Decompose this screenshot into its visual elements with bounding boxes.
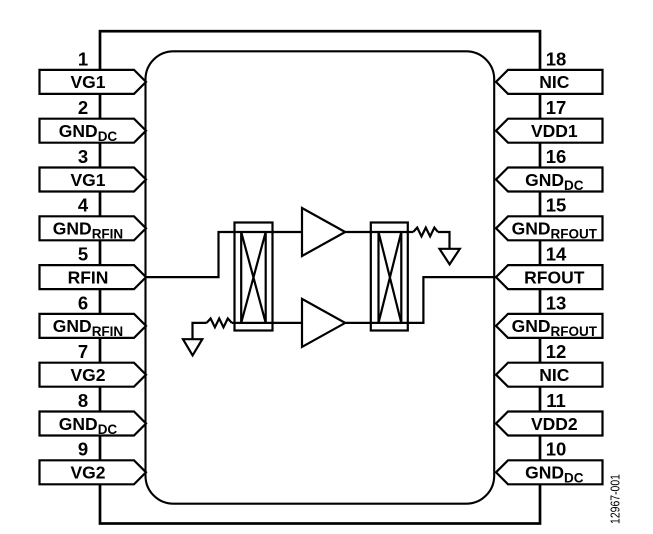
svg-text:13: 13	[546, 292, 567, 313]
svg-text:11: 11	[546, 390, 566, 411]
svg-text:7: 7	[78, 341, 88, 362]
svg-text:12: 12	[546, 341, 567, 362]
svg-text:8: 8	[78, 390, 88, 411]
svg-text:15: 15	[546, 195, 567, 216]
svg-text:VG1: VG1	[70, 72, 105, 92]
svg-text:1: 1	[78, 48, 88, 69]
svg-text:RFOUT: RFOUT	[524, 267, 585, 287]
svg-text:3: 3	[78, 146, 88, 167]
svg-text:16: 16	[546, 146, 567, 167]
svg-text:12967-001: 12967-001	[607, 474, 622, 524]
svg-text:NIC: NIC	[539, 72, 570, 92]
svg-text:VG1: VG1	[70, 170, 105, 190]
svg-text:6: 6	[78, 292, 88, 313]
svg-text:VG2: VG2	[70, 463, 105, 483]
svg-text:NIC: NIC	[539, 365, 570, 385]
svg-text:17: 17	[546, 97, 567, 118]
svg-text:VDD1: VDD1	[531, 121, 578, 141]
svg-text:VDD2: VDD2	[531, 414, 578, 434]
svg-text:14: 14	[546, 244, 567, 265]
svg-text:5: 5	[78, 244, 88, 265]
svg-text:2: 2	[78, 97, 88, 118]
svg-text:VG2: VG2	[70, 365, 105, 385]
svg-text:18: 18	[546, 48, 567, 69]
svg-text:10: 10	[546, 439, 567, 460]
svg-text:9: 9	[78, 439, 88, 460]
svg-text:RFIN: RFIN	[68, 267, 109, 287]
svg-text:4: 4	[78, 195, 89, 216]
